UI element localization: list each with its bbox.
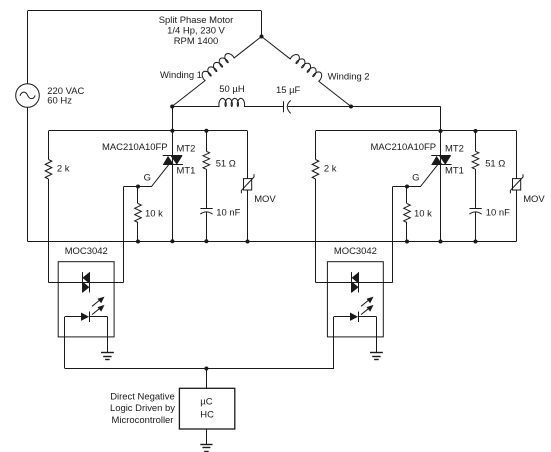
resistor R2 10 k bbox=[137, 187, 139, 204]
svg-text:MT2: MT2 bbox=[445, 143, 464, 154]
svg-text:MAC210A10FP: MAC210A10FP bbox=[102, 142, 168, 153]
svg-text:10 k: 10 k bbox=[414, 208, 432, 219]
wire main horizontal segment bbox=[172, 106, 220, 108]
node bbox=[204, 129, 208, 133]
wire AC source bottom lead / left rail bbox=[27, 107, 29, 241]
svg-text:10 k: 10 k bbox=[145, 208, 163, 219]
svg-text:Direct Negative: Direct Negative bbox=[110, 391, 175, 402]
LED arrows bbox=[361, 300, 369, 306]
node winding2 / line bbox=[349, 105, 353, 109]
svg-text:60 Hz: 60 Hz bbox=[47, 95, 72, 106]
svg-text:10 nF: 10 nF bbox=[216, 207, 240, 218]
junction node bbox=[246, 240, 250, 244]
wire right snubber top rail bbox=[316, 130, 517, 132]
LED arrows bbox=[92, 300, 100, 306]
svg-text:51 Ω: 51 Ω bbox=[485, 158, 505, 169]
svg-text:10 nF: 10 nF bbox=[486, 207, 510, 218]
resistor R4 2 k bbox=[315, 131, 317, 160]
svg-text:MAC210A10FP: MAC210A10FP bbox=[371, 142, 437, 153]
junction node bbox=[405, 240, 409, 244]
svg-text:2 k: 2 k bbox=[57, 164, 70, 175]
svg-text:MT1: MT1 bbox=[177, 166, 196, 177]
wire LED cathode to ground bbox=[376, 317, 378, 353]
svg-text:µC: µC bbox=[200, 396, 212, 407]
svg-text:50 µH: 50 µH bbox=[219, 84, 245, 95]
gate wire Q1 bbox=[124, 165, 169, 187]
junction node bbox=[136, 240, 140, 244]
wire LED anode down bbox=[64, 317, 66, 369]
svg-text:2 k: 2 k bbox=[324, 164, 337, 175]
wire bbox=[244, 106, 284, 108]
AC source V1 220 VAC bbox=[16, 84, 40, 108]
node uC bbox=[204, 367, 208, 371]
LED U1 input bbox=[65, 316, 81, 318]
node motor common bbox=[260, 35, 264, 39]
svg-text:MOV: MOV bbox=[523, 194, 545, 205]
svg-text:MOC3042: MOC3042 bbox=[65, 246, 108, 257]
svg-text:HC: HC bbox=[200, 409, 214, 420]
wire uC to ground bbox=[206, 429, 208, 444]
wire right triac vertical bbox=[440, 107, 442, 242]
wire LED cathode to ground bbox=[107, 317, 109, 353]
varistor MOV (right) bbox=[516, 131, 518, 179]
capacitor C2 10 nF bbox=[200, 208, 212, 210]
node MT1 rail bbox=[170, 239, 174, 243]
junction node bbox=[405, 185, 409, 189]
wire top-left horizontal bbox=[28, 10, 262, 12]
capacitor C1 15 uF bbox=[283, 101, 285, 112]
node winding1 / line bbox=[170, 105, 174, 109]
svg-text:Winding 1: Winding 1 bbox=[160, 70, 202, 81]
svg-text:15 µF: 15 µF bbox=[276, 85, 301, 96]
junction node bbox=[439, 129, 443, 133]
svg-text:G: G bbox=[144, 173, 151, 184]
junction node bbox=[439, 240, 443, 244]
triac Q1 MAC210A10FP bbox=[163, 155, 183, 157]
triac Q2 MAC210A10FP bbox=[431, 155, 451, 157]
wire bbox=[288, 106, 441, 108]
junction node bbox=[474, 129, 478, 133]
resistor R6 51 ohm bbox=[475, 131, 477, 151]
wire left triac vertical (MT2-MT1) bbox=[172, 107, 174, 242]
ground (right MOC) bbox=[370, 352, 383, 354]
junction node bbox=[204, 239, 208, 243]
svg-text:Winding 2: Winding 2 bbox=[328, 72, 370, 83]
winding 2 (motor) bbox=[262, 37, 291, 60]
phototriac U1 output bbox=[82, 272, 84, 292]
inductor L1 50 uH bbox=[219, 98, 245, 106]
wire AC source top lead bbox=[27, 11, 29, 84]
wire bottom main rail bbox=[28, 241, 517, 243]
ground (left MOC) bbox=[101, 352, 114, 354]
svg-text:G: G bbox=[412, 173, 419, 184]
wire phototriac loop bbox=[49, 282, 124, 284]
microcontroller U3 bbox=[179, 388, 234, 429]
resistor R3 51 ohm bbox=[206, 131, 208, 151]
wire phototriac loop bbox=[316, 282, 393, 284]
node gate/10k bbox=[136, 185, 140, 189]
wire logic bus bbox=[65, 368, 334, 370]
phototriac U2 output bbox=[351, 272, 353, 292]
svg-text:MOV: MOV bbox=[254, 194, 276, 205]
ground (uC) bbox=[200, 444, 212, 446]
svg-text:MT1: MT1 bbox=[445, 166, 464, 177]
junction node bbox=[474, 240, 478, 244]
resistor R1 2 k bbox=[48, 131, 50, 160]
wire motor drop bbox=[261, 11, 263, 37]
svg-text:MOC3042: MOC3042 bbox=[334, 246, 377, 257]
resistor R5 10 k bbox=[406, 187, 408, 204]
svg-text:51 Ω: 51 Ω bbox=[216, 158, 236, 169]
svg-text:Microcontroller: Microcontroller bbox=[112, 415, 174, 426]
node bbox=[170, 129, 174, 133]
wire to uC bbox=[206, 369, 208, 389]
LED U2 input bbox=[334, 316, 350, 318]
wire left snubber top rail bbox=[49, 130, 248, 132]
svg-text:Logic Driven by: Logic Driven by bbox=[110, 403, 175, 414]
winding 1 (motor) bbox=[234, 37, 262, 59]
wire LED anode down bbox=[333, 317, 335, 369]
varistor MOV (left) bbox=[247, 131, 249, 179]
svg-text:RPM 1400: RPM 1400 bbox=[174, 36, 219, 47]
gate wire Q2 bbox=[393, 165, 438, 187]
capacitor C3 10 nF bbox=[470, 208, 482, 210]
svg-text:MT2: MT2 bbox=[177, 143, 196, 154]
